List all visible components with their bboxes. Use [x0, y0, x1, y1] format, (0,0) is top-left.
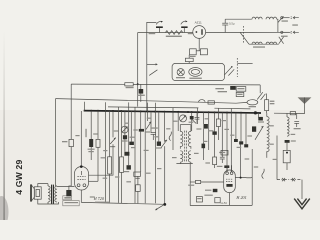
row1 coil L1a [252, 17, 262, 19]
row3 coil L2a [252, 42, 262, 44]
resistor R7 [96, 139, 100, 147]
R3 label [270, 101, 275, 102]
svg-text:H 201: H 201 [235, 195, 246, 200]
OT top lead [56, 185, 57, 187]
tall resistor R9 [120, 157, 124, 173]
label glimm [190, 56, 196, 57]
resistor R4 on W99 [208, 101, 214, 104]
selector row3 wire [249, 43, 279, 45]
box R11 [134, 172, 141, 179]
junction dot W84 [137, 83, 139, 85]
comp R10 [129, 137, 135, 145]
wire W107 right [214, 107, 250, 110]
IF core dashes [185, 131, 187, 162]
box at V2 bottom [215, 198, 220, 203]
V2 anode wire [235, 177, 252, 179]
plug row2 on main wire [281, 31, 299, 34]
wire W107 [108, 107, 198, 108]
cap C13 plates [219, 152, 225, 163]
OT winding W2 [55, 186, 57, 202]
label row3 [253, 46, 265, 47]
lamp label [176, 77, 185, 78]
boxed label G1 [236, 87, 246, 92]
rectifier tube V3 [193, 26, 206, 39]
ground chevron [294, 199, 310, 209]
V1 anode lead [89, 144, 114, 175]
tube V1 [75, 167, 89, 191]
main HT wire [138, 31, 291, 33]
V2 top leads [227, 165, 232, 172]
vertical label [85, 129, 86, 137]
label 220 [292, 24, 298, 25]
OT winding W1 [48, 186, 50, 202]
oval label [189, 78, 201, 79]
row1 coil L1b [266, 17, 277, 19]
label sub smudge [95, 202, 110, 203]
bus end blob [254, 111, 257, 114]
TA label [126, 87, 134, 88]
small dark C20 [202, 144, 206, 149]
wiper arrow [155, 205, 164, 210]
plug contact row1 [281, 16, 299, 19]
label row1 [282, 20, 288, 21]
cap C7 dark bar [133, 129, 144, 132]
wire left corner down [137, 33, 139, 107]
bus junction dots [90, 110, 242, 114]
IF cap plates [195, 113, 200, 124]
speaker bottom wire [38, 199, 59, 204]
cap C3 0,5u [222, 19, 228, 32]
tube V2 [224, 170, 236, 193]
chassis bus [84, 111, 261, 113]
resistor R16 [216, 119, 226, 127]
mech dashed link 2 [236, 58, 238, 77]
wire switch to right [237, 63, 252, 65]
label 13 [246, 177, 251, 178]
label box near V2 [196, 197, 202, 202]
dash-dot link [277, 178, 302, 181]
IF winding 2b [188, 151, 191, 162]
cap dark C9 [190, 116, 196, 123]
V1 top lead [80, 111, 82, 165]
switch contacts right of box [225, 66, 235, 76]
label above wire [90, 196, 95, 197]
label boxes lower left [63, 196, 79, 206]
label smudge ws2 [218, 91, 227, 92]
antenna feed wire [274, 104, 305, 114]
wire vertical to bus [146, 33, 148, 111]
volume wire [81, 202, 165, 204]
box R12 [136, 176, 141, 203]
svg-text:0,5µ: 0,5µ [229, 22, 235, 26]
box w dot [283, 150, 290, 170]
V1 grid dot [80, 165, 83, 168]
grid resistor R19 [188, 180, 224, 185]
lever from main wire [240, 33, 249, 45]
trimmer circle T1 [121, 126, 128, 133]
resistor R3 vertical [265, 94, 269, 114]
glimm lamp box A [189, 38, 207, 58]
resistor R1 zigzag [165, 31, 182, 35]
scale lamp oval [189, 68, 202, 77]
pot arrow P2 [161, 140, 167, 148]
speaker driver [34, 187, 41, 199]
box R18 [221, 150, 228, 155]
row3 coil L2b [266, 42, 277, 44]
selector bracket [277, 19, 278, 32]
boxed label G2 [236, 92, 244, 96]
IF top leads [180, 125, 191, 132]
switch X row3 [279, 37, 284, 44]
cap C18 [64, 190, 71, 199]
IF winding 1b [188, 131, 191, 148]
drops group [69, 84, 297, 205]
dark comp on W84 [230, 86, 236, 90]
resistor R5 9m [62, 139, 73, 146]
tall resistor R8 [108, 157, 112, 174]
mains switch contacts [257, 92, 265, 100]
cap C4 on vertical [139, 84, 144, 102]
svg-text:4 GW 29: 4 GW 29 [14, 159, 24, 194]
resistor R6 dark [88, 139, 95, 152]
trimmer arrow Y [110, 138, 116, 148]
grid cap C14 [217, 165, 230, 168]
trimmer T2 [180, 115, 187, 122]
coil column L3 [267, 117, 269, 153]
ground drop [301, 180, 303, 199]
cap C17 dark bar [285, 140, 296, 143]
W1 leads [47, 184, 49, 204]
wire W84 [71, 83, 125, 85]
label row2 [281, 36, 288, 37]
OT core [52, 185, 54, 204]
C4 label [138, 95, 145, 96]
coil hump on W99 [199, 100, 206, 103]
label smudge ws1 [215, 88, 224, 89]
svg-text:AZ11: AZ11 [195, 20, 202, 24]
volume junction [163, 203, 166, 206]
TAV label [249, 106, 256, 107]
left scan border [3, 30, 4, 220]
AF coupling wire [57, 185, 75, 187]
resistor R13 dark [155, 142, 161, 149]
antenna symbol [298, 97, 312, 104]
V1 bottom stub [80, 190, 82, 202]
speaker top lead [38, 184, 48, 187]
coil script l1 [169, 132, 171, 141]
resistor R2 on box top [185, 58, 193, 63]
cap C6 blob [124, 165, 131, 172]
corner smudge [0, 196, 9, 228]
small dark C12 [244, 144, 248, 147]
svg-text:A B1: A B1 [220, 201, 228, 205]
pot arrow P1 [146, 118, 151, 130]
small dark C10 [234, 139, 238, 142]
resistor R17 [213, 157, 217, 168]
cap C16 plates [294, 122, 301, 130]
pot P3 arrow [255, 117, 264, 140]
dark C15 [252, 126, 256, 131]
IF winding 2a [180, 151, 183, 162]
speaker cone [31, 184, 34, 201]
IF winding 1a [180, 131, 183, 148]
grid coupling cap C19 [204, 189, 217, 196]
comp dark small [124, 152, 129, 156]
IF bottom wire [176, 162, 192, 205]
wire arrow into box [147, 63, 158, 75]
mech dashed link [242, 26, 244, 44]
electrolytic C2 [181, 21, 188, 33]
grid wire V2 [190, 181, 195, 183]
R1 value smudge [166, 36, 182, 37]
TA box [125, 83, 260, 86]
pilot lamp [177, 69, 184, 76]
small dark C11 [239, 141, 243, 144]
L3 bottom stub [266, 153, 268, 158]
series cap on feed [290, 112, 295, 115]
wire W99 [56, 99, 237, 104]
V2 bottom stub [190, 193, 252, 206]
selector row1 wire [225, 18, 252, 20]
top stub to C1 [147, 22, 157, 32]
coil script l2 [262, 169, 264, 179]
resistor R15 dark [212, 131, 216, 134]
label C2 [188, 33, 193, 34]
label 4uF [149, 33, 156, 34]
dial box [172, 63, 224, 80]
cap C8 plates [151, 127, 158, 140]
scattered value labels [75, 118, 295, 182]
resistor R14 dark [204, 124, 208, 129]
coil column L4 [287, 117, 289, 136]
selector lever row1 [278, 16, 284, 22]
V1 lead2 [89, 180, 99, 182]
fuse oval TAV [236, 100, 258, 105]
wire W84 corner down [259, 85, 261, 93]
cap C5 dark [122, 135, 128, 141]
electrolytic C1 [156, 21, 163, 33]
wire W99 left corner [55, 99, 57, 186]
paper shading [0, 110, 320, 220]
